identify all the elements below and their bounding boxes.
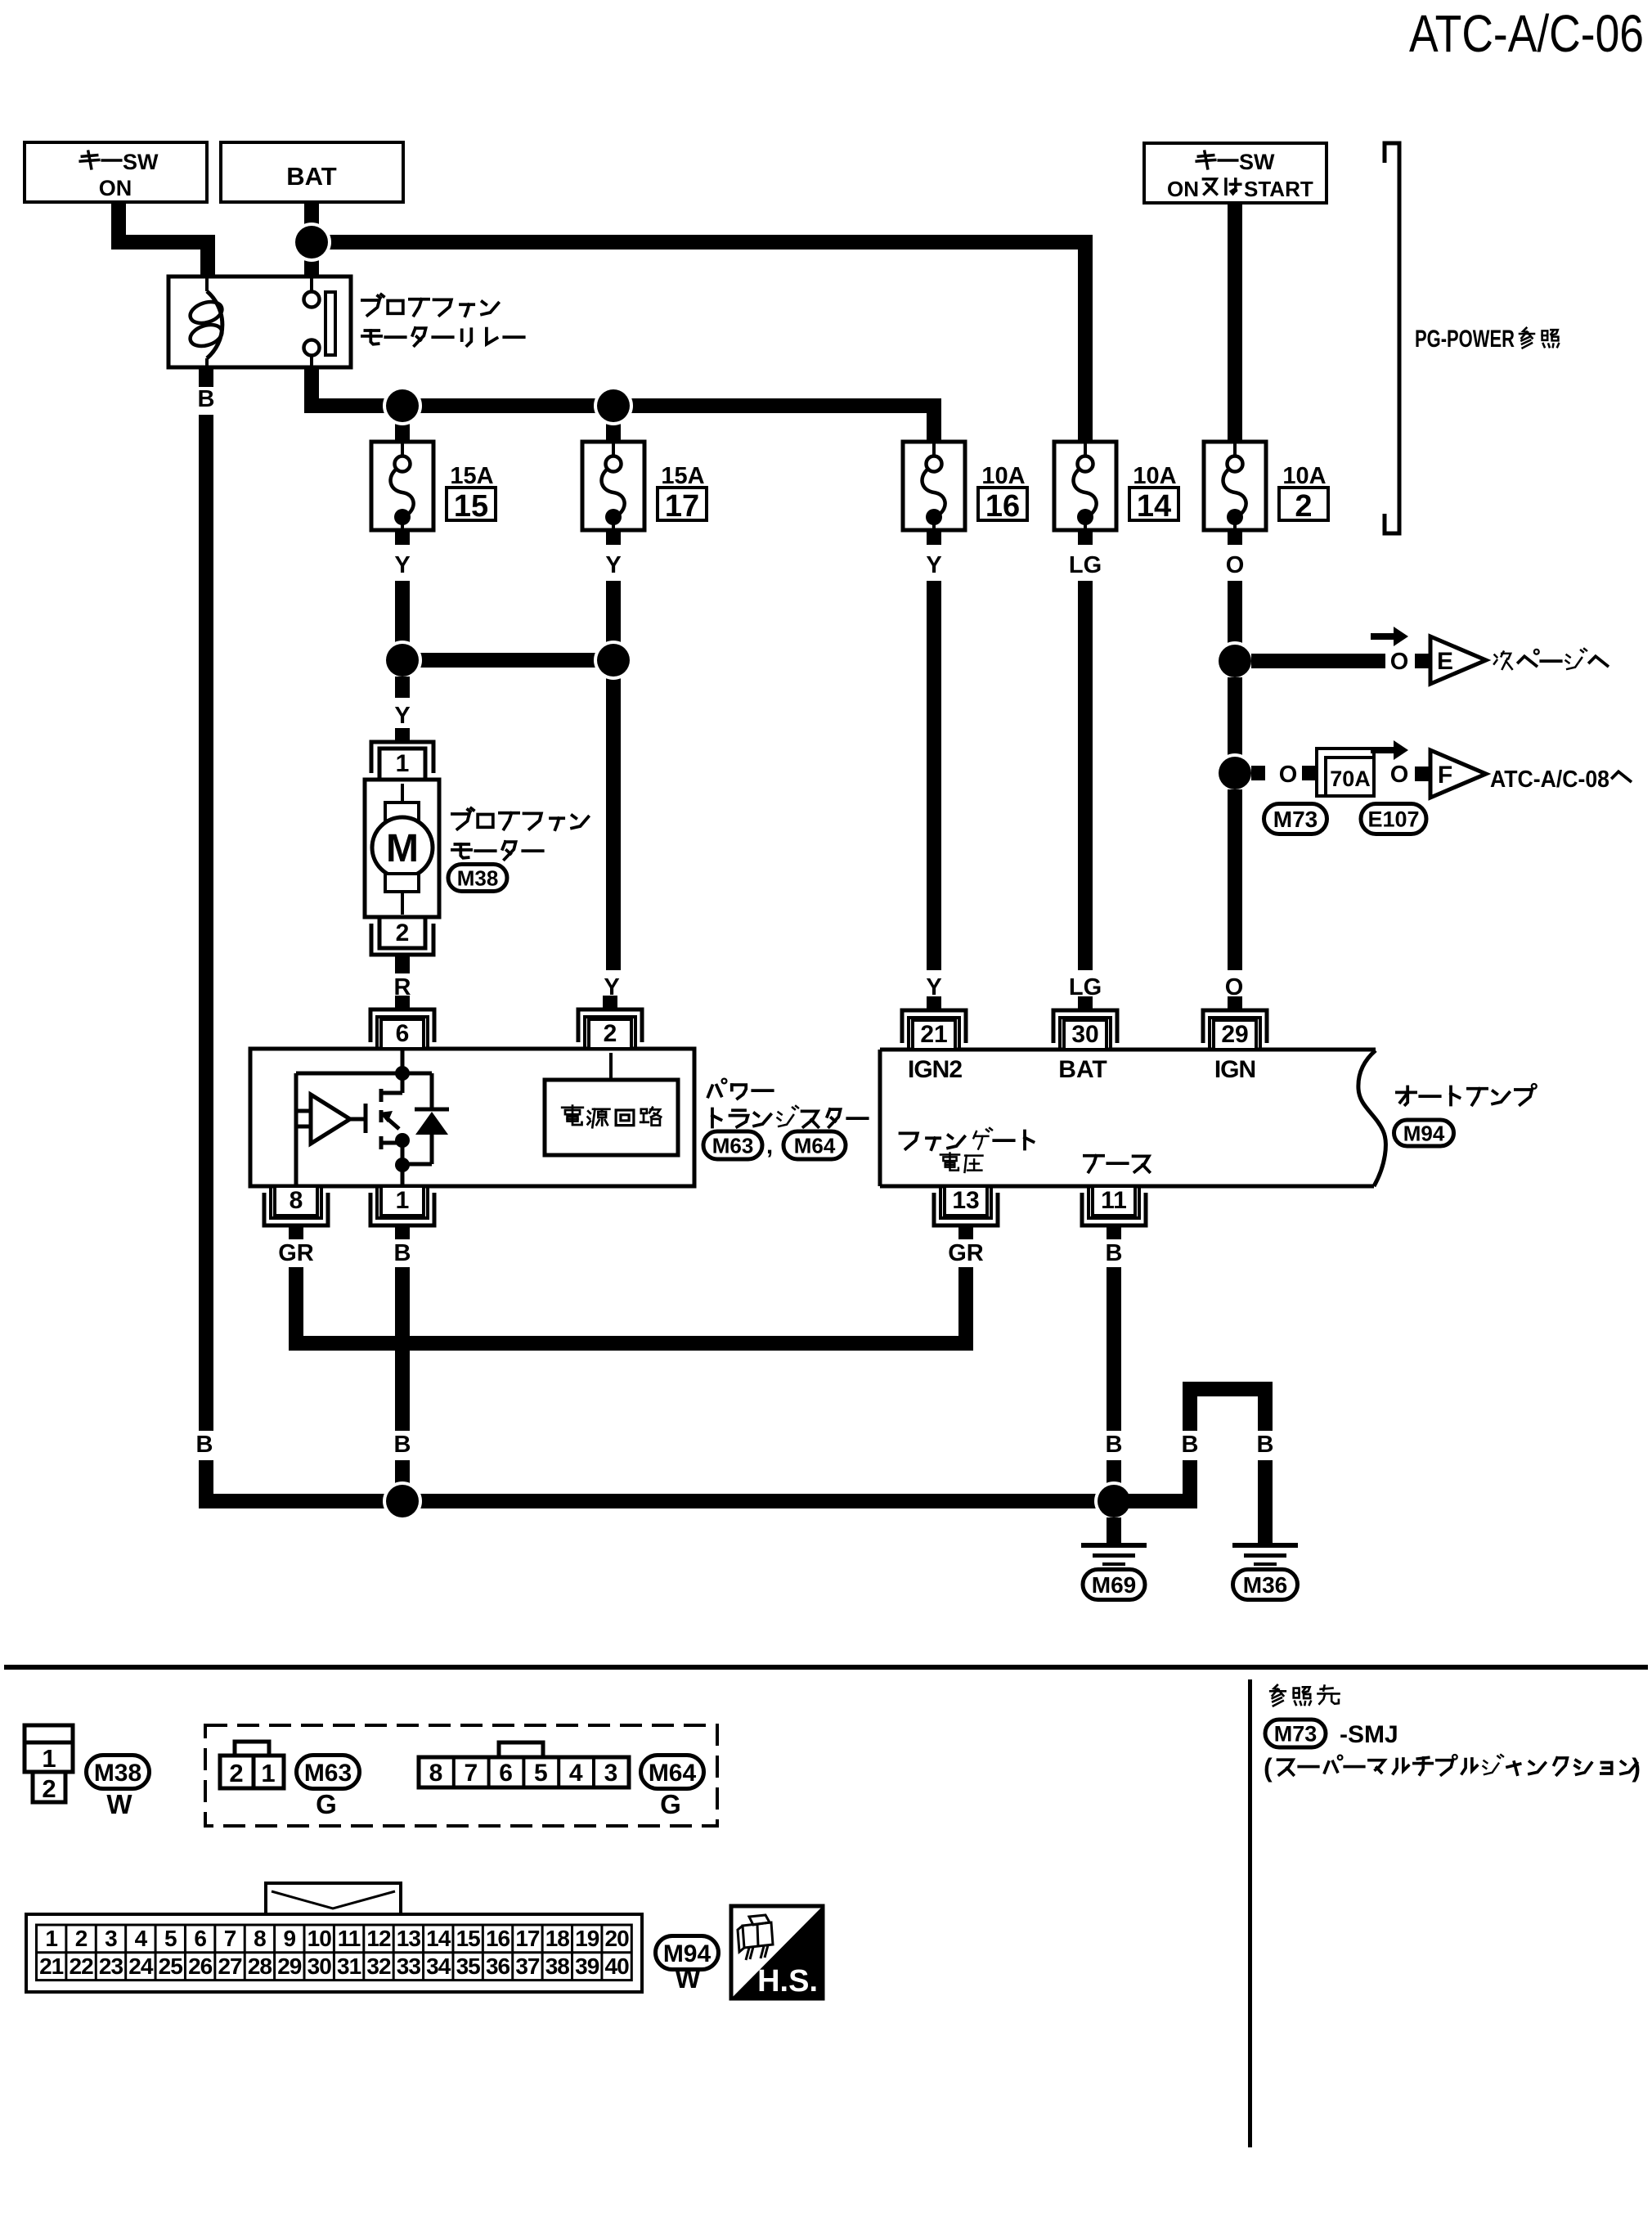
connector M94: [1394, 1120, 1454, 1146]
pin 21: [927, 996, 941, 1010]
svg-text:19: 19: [575, 1926, 599, 1951]
label next page: [1495, 655, 1497, 658]
dashed group box M63/M64: [205, 1725, 717, 1826]
svg-text:PG-POWER: PG-POWER: [1415, 326, 1515, 353]
svg-text:W: W: [675, 1963, 701, 1994]
svg-text:16: 16: [486, 1926, 510, 1951]
svg-text:B: B: [394, 1240, 411, 1266]
svg-text:7: 7: [464, 1760, 478, 1787]
svg-text:): ): [1632, 1753, 1641, 1783]
svg-text:H.S.: H.S.: [757, 1964, 818, 1998]
svg-text:10A: 10A: [981, 463, 1025, 489]
pin 13: [958, 1225, 973, 1239]
wire to E arrow: [1251, 654, 1385, 668]
svg-text:E107: E107: [1367, 807, 1419, 832]
svg-text:Y: Y: [394, 552, 410, 578]
junction node B bus: [383, 1481, 422, 1521]
svg-text:O: O: [1390, 762, 1409, 788]
svg-text:16: 16: [985, 489, 1020, 524]
ref divider: [1248, 1679, 1252, 2147]
svg-text:27: 27: [218, 1954, 242, 1979]
svg-text:8: 8: [429, 1760, 443, 1787]
svg-text:-SMJ: -SMJ: [1340, 1721, 1398, 1748]
svg-text:ON: ON: [1167, 177, 1199, 201]
svg-text:38: 38: [545, 1954, 570, 1979]
svg-text:3: 3: [105, 1926, 117, 1951]
svg-text:M73: M73: [1273, 807, 1318, 832]
svg-text:M69: M69: [1092, 1572, 1136, 1598]
svg-text:2: 2: [604, 1020, 617, 1047]
svg-text:M63: M63: [304, 1760, 352, 1787]
svg-text:29: 29: [1221, 1021, 1248, 1048]
svg-text:Y: Y: [394, 703, 410, 729]
svg-text:B: B: [394, 1432, 411, 1458]
motor pin 1: [395, 728, 410, 742]
page ref triangle E: [1430, 636, 1486, 684]
wire key-sw on/start down to fuse 2: [1228, 203, 1242, 442]
H.S. icon: [731, 1906, 823, 1998]
svg-text:14: 14: [1137, 489, 1171, 524]
power supply circuit box: [609, 1053, 613, 1080]
svg-text:B: B: [1257, 1432, 1274, 1458]
wire R motor to transistor: [395, 955, 410, 973]
svg-text:SW: SW: [123, 150, 159, 174]
svg-text:15: 15: [456, 1926, 481, 1951]
svg-text:6: 6: [194, 1926, 206, 1951]
wire relay coil to B: [199, 367, 213, 387]
svg-text:W: W: [106, 1789, 132, 1819]
svg-text:F: F: [1438, 762, 1452, 789]
svg-text:28: 28: [248, 1954, 272, 1979]
transistor labels: [708, 1086, 712, 1096]
connector view M64: [499, 1742, 543, 1757]
svg-text:1: 1: [261, 1759, 275, 1787]
svg-text:21: 21: [920, 1021, 947, 1048]
svg-text:1: 1: [45, 1926, 57, 1951]
connector E107: [1361, 804, 1426, 834]
svg-text:5: 5: [534, 1760, 548, 1787]
svg-text:6: 6: [499, 1760, 513, 1787]
svg-text:E: E: [1437, 648, 1453, 675]
svg-text:21: 21: [39, 1954, 64, 1979]
wire BAT to relay contact: [304, 242, 319, 277]
pin 29: [1228, 996, 1242, 1010]
svg-text:1: 1: [396, 750, 410, 777]
connector M73: [1264, 804, 1327, 834]
svg-text:18: 18: [545, 1926, 570, 1951]
svg-text:13: 13: [952, 1187, 979, 1214]
svg-text:M64: M64: [649, 1760, 697, 1787]
diode: [430, 1073, 434, 1109]
svg-text:ON: ON: [99, 176, 132, 200]
svg-text:29: 29: [277, 1954, 302, 1979]
svg-text:9: 9: [284, 1926, 296, 1951]
svg-text:15A: 15A: [661, 463, 704, 489]
svg-text:BAT: BAT: [1058, 1056, 1107, 1083]
svg-text:SW: SW: [1239, 150, 1275, 174]
svg-text:14: 14: [426, 1926, 451, 1951]
fuse 10A #16: [903, 442, 965, 530]
wire to 70A SMJ: [1251, 766, 1265, 780]
svg-text:20: 20: [605, 1926, 630, 1951]
power transistor box M63/M64: [250, 1049, 694, 1186]
connector M63: [703, 1131, 762, 1159]
junction node fuse15: [383, 386, 422, 425]
svg-text:25: 25: [159, 1954, 183, 1979]
svg-text:10: 10: [308, 1926, 332, 1951]
svg-text:10A: 10A: [1133, 463, 1176, 489]
fuse 10A #14: [1054, 442, 1116, 530]
svg-text:O: O: [1390, 649, 1409, 675]
relay label: [362, 300, 379, 316]
svg-text:B: B: [1182, 1432, 1199, 1458]
svg-text:2: 2: [42, 1774, 56, 1803]
svg-text:1: 1: [42, 1744, 56, 1773]
svg-text:12: 12: [366, 1926, 391, 1951]
svg-text:33: 33: [397, 1954, 421, 1979]
svg-text:IGN: IGN: [1214, 1056, 1255, 1083]
svg-text:Y: Y: [926, 552, 941, 578]
pin 1: [395, 1225, 410, 1239]
svg-text:B: B: [1106, 1240, 1123, 1266]
pin 30: [1078, 996, 1093, 1010]
svg-text:B: B: [196, 1432, 213, 1458]
svg-text:G: G: [660, 1789, 681, 1819]
svg-text:M: M: [386, 827, 419, 870]
long B wire left: [199, 415, 213, 1431]
page ref triangle F: [1430, 750, 1486, 798]
svg-text:4: 4: [569, 1760, 583, 1787]
arrow E: [1371, 633, 1395, 640]
power source box BAT: [221, 142, 403, 202]
mosfet: [364, 1104, 368, 1133]
svg-text:70A: 70A: [1330, 767, 1371, 791]
svg-text:G: G: [316, 1789, 337, 1819]
svg-text:3: 3: [604, 1760, 618, 1787]
transistor internals: [401, 1050, 405, 1093]
motor label: [452, 814, 469, 830]
svg-text:ATC-A/C-06: ATC-A/C-06: [1409, 4, 1644, 63]
svg-text:M64: M64: [794, 1133, 836, 1158]
stub to fuse15: [395, 406, 410, 442]
svg-text:1: 1: [396, 1187, 410, 1214]
svg-text:22: 22: [70, 1954, 94, 1979]
svg-text:37: 37: [515, 1954, 540, 1979]
wire Y to motor: [395, 677, 410, 698]
svg-text:O: O: [1279, 762, 1298, 788]
wire BAT down: [304, 202, 319, 242]
fuse 15A #15: [371, 442, 433, 530]
svg-text:O: O: [1226, 552, 1245, 578]
connector view M94: [266, 1883, 401, 1916]
svg-text:(: (: [1264, 1753, 1273, 1783]
pin 8: [289, 1225, 303, 1239]
svg-text:17: 17: [665, 489, 699, 524]
pin 2: [603, 996, 617, 1009]
svg-text:7: 7: [224, 1926, 236, 1951]
svg-text:GR: GR: [278, 1240, 314, 1266]
svg-text:2: 2: [396, 919, 410, 946]
separator line: [4, 1665, 1648, 1670]
svg-text:39: 39: [575, 1954, 599, 1979]
svg-text:M63: M63: [712, 1133, 754, 1158]
bracket PG-POWER: [1385, 143, 1399, 533]
fuse 15A #17: [582, 442, 644, 530]
svg-text:M38: M38: [94, 1760, 141, 1787]
SMJ 70A box: [1317, 749, 1374, 796]
svg-text:B: B: [198, 386, 215, 412]
amp label: [1397, 1091, 1416, 1095]
svg-text:6: 6: [396, 1020, 410, 1047]
svg-text:34: 34: [426, 1954, 451, 1979]
svg-text:24: 24: [128, 1954, 154, 1979]
pin 6: [395, 996, 410, 1009]
svg-text:5: 5: [164, 1926, 177, 1951]
ref heading: [1274, 1685, 1279, 1690]
connector M64: [783, 1131, 846, 1159]
svg-text:30: 30: [1071, 1021, 1098, 1048]
auto amp box M94: [880, 1050, 1360, 1186]
power source box KEY-SW ON/START: [1144, 143, 1327, 203]
relay: blower fan motor relay: [168, 277, 351, 367]
svg-text:2: 2: [229, 1759, 243, 1787]
svg-text:26: 26: [188, 1954, 213, 1979]
power source box KEY-SW ON: [25, 142, 207, 202]
svg-text:13: 13: [397, 1926, 421, 1951]
blower fan motor M38: [365, 780, 439, 917]
svg-text:35: 35: [456, 1954, 481, 1979]
svg-text:4: 4: [135, 1926, 148, 1951]
svg-text:36: 36: [486, 1954, 510, 1979]
junction node fuse17: [594, 386, 633, 425]
wire power bus to fuse 14: [304, 235, 1093, 250]
svg-text:B: B: [1106, 1432, 1123, 1458]
svg-text:30: 30: [308, 1954, 332, 1979]
fuse 10A #2: [1204, 442, 1266, 530]
buffer amp: [311, 1095, 350, 1144]
ground M36: [1232, 1543, 1298, 1548]
svg-text:BAT: BAT: [286, 162, 336, 191]
svg-text:M73: M73: [1274, 1722, 1318, 1747]
wire key-sw to relay coil: [111, 202, 126, 250]
svg-text:32: 32: [366, 1954, 391, 1979]
svg-text:31: 31: [337, 1954, 361, 1979]
svg-text:2: 2: [1295, 489, 1312, 524]
connector view M63: [235, 1742, 269, 1757]
svg-text:START: START: [1244, 177, 1313, 201]
stub to fuse17: [606, 406, 621, 442]
svg-text:GR: GR: [948, 1240, 984, 1266]
B loop to M36: [1114, 1494, 1197, 1508]
junction node O / F-branch: [1228, 677, 1242, 773]
svg-text:17: 17: [515, 1926, 540, 1951]
junction node B ground: [1094, 1481, 1134, 1521]
svg-text:11: 11: [338, 1926, 361, 1951]
pin 11: [1107, 1225, 1121, 1239]
wire between Y junctions: [402, 653, 613, 668]
junction node BAT: [292, 223, 331, 262]
svg-text:8: 8: [290, 1187, 303, 1214]
ground bus bottom: [199, 1494, 1197, 1508]
svg-text:15A: 15A: [450, 463, 493, 489]
svg-text:M94: M94: [1403, 1121, 1445, 1145]
wire O down to IGN: [1228, 789, 1242, 970]
svg-text:10A: 10A: [1282, 463, 1326, 489]
connector view M38: [25, 1725, 73, 1742]
svg-text:23: 23: [99, 1954, 123, 1979]
junction node Y left: [383, 641, 422, 680]
connector M73 ref: [1265, 1720, 1326, 1747]
svg-text:11: 11: [1101, 1187, 1127, 1214]
connector M38: [448, 865, 507, 892]
junction node O / E-branch: [1215, 641, 1255, 681]
wire GR bus: [289, 1336, 973, 1351]
svg-text:LG: LG: [1069, 552, 1102, 578]
svg-text:IGN2: IGN2: [908, 1056, 962, 1083]
svg-text:,: ,: [766, 1132, 773, 1159]
motor pin 2: [395, 955, 410, 969]
svg-text:15: 15: [454, 489, 488, 524]
svg-text:Y: Y: [605, 552, 621, 578]
wire to ground M69: [1107, 1517, 1121, 1543]
svg-text:2: 2: [75, 1926, 88, 1951]
junction node Y right: [594, 641, 633, 680]
svg-text:M36: M36: [1243, 1572, 1287, 1598]
arrow F: [1371, 747, 1395, 753]
ground M69: [1081, 1543, 1147, 1548]
svg-text:ATC-A/C-08: ATC-A/C-08: [1490, 767, 1609, 793]
svg-text:M38: M38: [457, 865, 499, 890]
svg-text:8: 8: [254, 1926, 266, 1951]
svg-text:40: 40: [605, 1954, 630, 1979]
wire relay contact to fuse bus: [304, 367, 319, 413]
